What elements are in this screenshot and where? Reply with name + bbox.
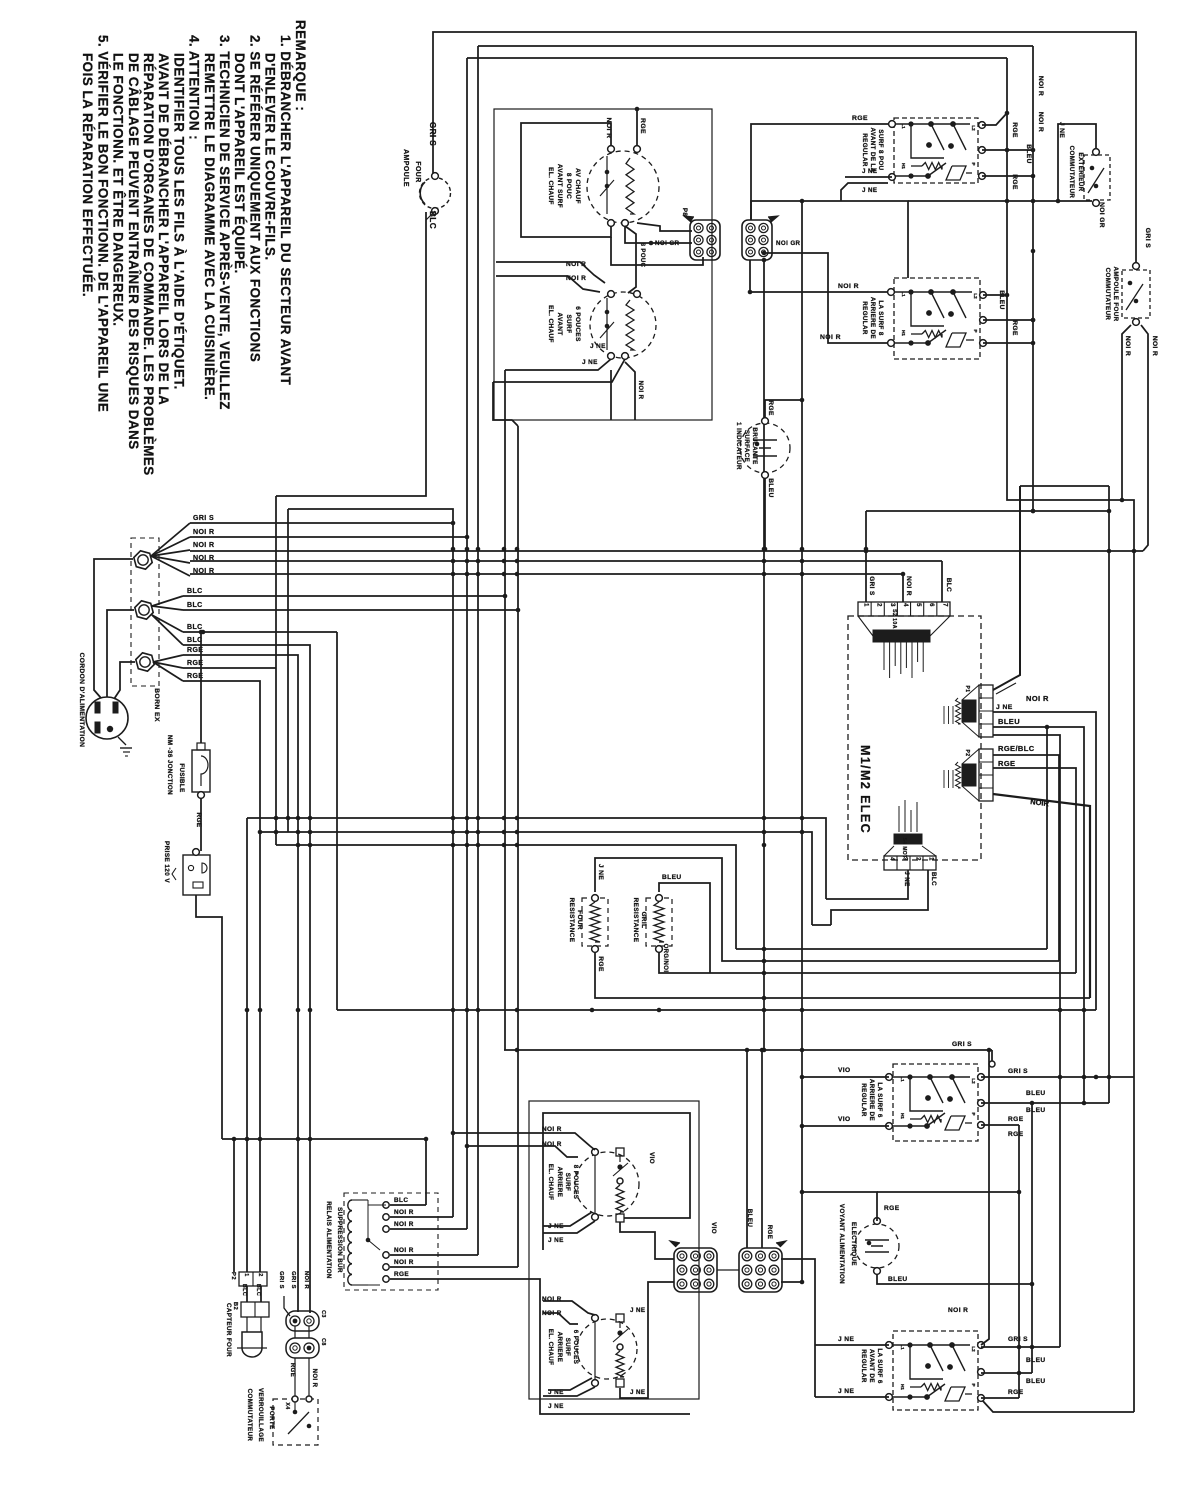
- svg-text:DONT L'APPAREIL EST ÉQUIPÉ.: DONT L'APPAREIL EST ÉQUIPÉ.: [232, 53, 247, 274]
- svg-text:VERROUILLAGE: VERROUILLAGE: [257, 1388, 264, 1442]
- fan wires connector2: [152, 596, 183, 606]
- wire: J2 right wires: [781, 1259, 815, 1397]
- svg-text:BLEU: BLEU: [1026, 1090, 1046, 1097]
- svg-text:GRI S: GRI S: [868, 576, 875, 596]
- svg-text:AVANT SURF: AVANT SURF: [556, 164, 563, 208]
- wire: bake bottom: [595, 952, 1090, 998]
- wire: sw3 left feeds: [802, 1076, 889, 1078]
- wire: J2 top drops: [746, 1050, 748, 1248]
- svg-text:SURFACE: SURFACE: [743, 430, 750, 462]
- svg-text:L2: L2: [973, 293, 978, 299]
- wire: fuse top to BLC bus: [200, 632, 202, 743]
- svg-text:GRI S: GRI S: [290, 1271, 296, 1289]
- svg-text:8 POUC: 8 POUC: [565, 173, 572, 199]
- svg-text:BORN EX: BORN EX: [153, 688, 160, 722]
- pilot light voyant alimentation: [855, 1224, 899, 1268]
- wire: C8 to door switch: [294, 1358, 296, 1399]
- svg-text:LA SURF 6: LA SURF 6: [876, 1082, 883, 1117]
- wire: relay t5: [390, 1266, 518, 1268]
- svg-text:AVANT DE: AVANT DE: [868, 1349, 875, 1383]
- svg-text:SURF: SURF: [564, 1338, 571, 1356]
- svg-text:2: 2: [915, 857, 921, 861]
- wire: bus y1010: [337, 1009, 1096, 1011]
- svg-text:2. SE RÉFÉRER UNIQUEMENT AUX F: 2. SE RÉFÉRER UNIQUEMENT AUX FONCTIONS: [247, 35, 262, 362]
- wire: RGE bus right v1019: [1018, 1125, 1020, 1398]
- svg-text:AVANT: AVANT: [556, 312, 563, 335]
- relais alimentation dashed box: [344, 1193, 438, 1290]
- svg-text:BRULANTE: BRULANTE: [751, 427, 758, 464]
- wire: v247 capteur: [246, 818, 248, 1272]
- svg-text:NOI GR: NOI GR: [1098, 202, 1105, 228]
- svg-text:REGULAR: REGULAR: [860, 1083, 867, 1117]
- svg-text:VIO: VIO: [710, 1222, 717, 1234]
- svg-text:BLC: BLC: [241, 1284, 247, 1296]
- infinite switch front 6po: [893, 1331, 978, 1410]
- svg-text:VIO: VIO: [648, 1152, 655, 1164]
- svg-text:RGE: RGE: [597, 956, 604, 972]
- svg-text:SUPPRESSION BUR: SUPPRESSION BUR: [336, 1207, 343, 1273]
- svg-text:C8: C8: [320, 1338, 326, 1346]
- wire: relay t3: [390, 1228, 467, 1230]
- surface element EL.CHAUF AVANT 8po (circle): [587, 151, 659, 223]
- svg-text:J NE: J NE: [996, 704, 1013, 711]
- element limiter 2: [606, 298, 608, 350]
- svg-text:NOI R: NOI R: [394, 1221, 414, 1228]
- wire: broil bottom: [659, 952, 710, 973]
- svg-text:8 POUC: 8 POUC: [639, 243, 645, 268]
- wire: sw4 BLEU right: [981, 1372, 1032, 1374]
- wire: elem4 feeds: [543, 1301, 595, 1315]
- svg-text:BLC: BLC: [945, 578, 952, 592]
- wire: elem3 feeds: [453, 1133, 595, 1150]
- wire: P2-1 RGE/BLC: [993, 755, 1059, 961]
- svg-text:NOI R: NOI R: [542, 1141, 562, 1148]
- fan wires connector3: [153, 655, 183, 662]
- wire: bus v1109: [1108, 486, 1110, 1103]
- rear element 6 resistor: [616, 1351, 624, 1377]
- oven lamp AMPOULE FOUR: [420, 178, 451, 209]
- infinite switch front 8po: [894, 118, 978, 183]
- wire: light sw split left: [1122, 325, 1131, 500]
- relay internal links: [368, 1204, 386, 1206]
- wire: to sw2 left B: [764, 253, 891, 343]
- svg-text:6: 6: [928, 603, 934, 607]
- board top fan + label bar: [858, 616, 873, 636]
- svg-text:J NE: J NE: [903, 871, 910, 886]
- wire: bus y845: [276, 845, 736, 949]
- wire: relay t2: [390, 1216, 453, 1218]
- wire: top GRIS bus L1: [433, 32, 1136, 262]
- svg-text:AMPOULE FOUR: AMPOULE FOUR: [1112, 267, 1119, 322]
- prise 120V outlet: [183, 855, 210, 895]
- wire: bottom strip drops: [826, 870, 908, 899]
- wire: comm ext top loop: [1058, 124, 1096, 201]
- wire: C2 right to sw2 top: [751, 201, 908, 278]
- svg-text:J NE: J NE: [630, 1307, 645, 1314]
- wire: P1-4 GRIS: [993, 735, 1060, 1347]
- svg-text:1: 1: [243, 1273, 249, 1276]
- svg-text:EL. CHAUF: EL. CHAUF: [547, 1164, 554, 1201]
- wire: bus v288: [287, 509, 289, 832]
- wire: cell drops from top: [865, 511, 867, 602]
- wire: v802 long: [801, 201, 803, 1282]
- fan wires connector1: [151, 523, 190, 556]
- wire: bus B v1033: [1032, 46, 1034, 511]
- wire: element1 to element2 link: [625, 226, 636, 293]
- wire: C3-C8 links: [294, 1326, 296, 1338]
- svg-text:EL. CHAUF: EL. CHAUF: [547, 1329, 554, 1366]
- svg-text:COMMUTATEUR: COMMUTATEUR: [1104, 268, 1111, 321]
- svg-text:NOI R: NOI R: [637, 381, 643, 400]
- svg-text:8 POUCES: 8 POUCES: [572, 1165, 579, 1200]
- wire: BLC 596 to v505: [183, 595, 505, 597]
- wire: bus v276: [275, 496, 277, 845]
- wire: sw3 GRIS right: [981, 1076, 1134, 1078]
- svg-text:NOI R: NOI R: [905, 576, 912, 596]
- svg-text:GRI S: GRI S: [428, 122, 437, 146]
- wire: top bus L2: [478, 45, 1033, 47]
- svg-text:GRI S: GRI S: [1008, 1068, 1028, 1075]
- svg-text:L2: L2: [971, 1078, 976, 1084]
- connector J2 9pin: [739, 1248, 782, 1292]
- svg-text:NOI R: NOI R: [394, 1247, 414, 1254]
- svg-text:RGE: RGE: [394, 1271, 409, 1278]
- svg-text:L1: L1: [900, 1076, 905, 1082]
- rear section outer box: [529, 1101, 699, 1399]
- connector P2 2pin: [239, 1272, 267, 1286]
- svg-text:EL. CHAUF: EL. CHAUF: [547, 167, 554, 205]
- svg-text:ARRIERE DE: ARRIERE DE: [869, 297, 876, 339]
- wire: P1-1 NOIR: [993, 486, 1020, 690]
- svg-text:GRI S: GRI S: [193, 515, 214, 522]
- wire: element2 bottom stubs: [505, 359, 611, 370]
- svg-text:J NE: J NE: [630, 1389, 645, 1396]
- svg-text:J NE: J NE: [838, 1336, 854, 1343]
- svg-text:RELAIS ALIMENTATION: RELAIS ALIMENTATION: [325, 1201, 332, 1279]
- wire: C2 bottom drop 750: [749, 260, 751, 292]
- svg-text:D'ENLEVER LE COUVRE-FILS.: D'ENLEVER LE COUVRE-FILS.: [263, 53, 278, 261]
- wire: RGE bus 681 to v260: [183, 681, 260, 1272]
- wire: element1 top to box edge: [636, 109, 638, 146]
- svg-text:RGE: RGE: [1008, 1116, 1024, 1123]
- svg-text:NOI R: NOI R: [193, 529, 214, 536]
- svg-text:BLC: BLC: [255, 1284, 261, 1296]
- svg-text:J NE: J NE: [548, 1403, 564, 1410]
- wire: link y925: [812, 924, 831, 926]
- svg-text:NOI R: NOI R: [1037, 112, 1044, 132]
- wire: NOIR bus y574: [190, 573, 903, 575]
- wire: sw4 RGE right: [981, 1397, 1019, 1399]
- svg-text:NOI R: NOI R: [394, 1259, 414, 1266]
- svg-text:AV CHAUF: AV CHAUF: [574, 168, 581, 204]
- svg-text:4: 4: [902, 603, 908, 607]
- svg-text:PRISE 120 V: PRISE 120 V: [163, 841, 170, 883]
- wire: BLC bus 632: [183, 631, 337, 633]
- hex connector 2: [135, 601, 153, 619]
- svg-text:BLC: BLC: [930, 872, 937, 886]
- svg-text:REGULAR: REGULAR: [861, 133, 868, 167]
- svg-text:NOI R: NOI R: [1124, 336, 1131, 356]
- svg-text:RGE: RGE: [289, 1363, 295, 1377]
- wire: NOIR bus y561: [190, 560, 942, 562]
- board top connector strip: [858, 602, 950, 616]
- svg-text:NOI R: NOI R: [542, 1296, 562, 1303]
- svg-text:4: 4: [889, 857, 895, 861]
- indicateur surface brulante: [740, 423, 790, 473]
- svg-text:REMETTRE LE DIAGRAMME AVEC LA: REMETTRE LE DIAGRAMME AVEC LA CUISINIÈRE…: [202, 53, 217, 400]
- svg-text:P8: P8: [681, 208, 688, 217]
- element resistor 2: [626, 300, 634, 350]
- wire: elem4 bottom: [620, 1282, 674, 1398]
- wire: element2 top feeds: [496, 262, 605, 283]
- svg-text:RÉPARATION D'ORGANES DE COMMAN: RÉPARATION D'ORGANES DE COMMANDE. LES PR…: [141, 53, 156, 476]
- svg-text:LE FONCTIONN. ET ÊTRE DANGEREU: LE FONCTIONN. ET ÊTRE DANGEREUX.: [111, 53, 126, 326]
- commutateur ampoule four: [1122, 270, 1150, 318]
- wire: outlet bottom: [196, 895, 222, 1139]
- svg-text:2: 2: [257, 1273, 263, 1276]
- svg-text:FOUR: FOUR: [414, 161, 421, 182]
- infinite switch rear 6po: [893, 1064, 978, 1141]
- wire: link y486: [1020, 485, 1109, 487]
- svg-text:H1: H1: [901, 163, 906, 169]
- svg-text:C3: C3: [320, 1310, 326, 1318]
- svg-text:NOI R: NOI R: [303, 1271, 309, 1290]
- svg-text:1. DÉBRANCHER L'APPAREIL DU SE: 1. DÉBRANCHER L'APPAREIL DU SECTEUR AVAN…: [278, 35, 293, 386]
- svg-text:RGE/BLC: RGE/BLC: [998, 744, 1035, 753]
- wire: P2-B2 stubs: [246, 1286, 248, 1302]
- svg-text:BLEU: BLEU: [888, 1276, 908, 1283]
- svg-text:5: 5: [915, 603, 921, 607]
- wire: RGE bus 655 to v298: [183, 655, 298, 1312]
- wire: fuse to outlet: [200, 798, 202, 851]
- wire: P2-4 NOIR diag: [993, 794, 1090, 998]
- hex connector 3: [136, 653, 154, 671]
- wire: J1-J2 link: [717, 1269, 739, 1271]
- svg-text:BLEU: BLEU: [998, 290, 1005, 310]
- wire: C2 bottom drop 764: [763, 260, 765, 1050]
- svg-text:BLC: BLC: [187, 602, 203, 609]
- svg-text:FUSIBLE: FUSIBLE: [178, 763, 185, 792]
- svg-text:VIO: VIO: [838, 1067, 851, 1074]
- wire: prise-capteur v234: [233, 1139, 235, 1272]
- commutateur verrouillage porte: [273, 1399, 318, 1445]
- wire: fan wire 537 to v467: [190, 536, 467, 538]
- rear element limiter contacts: [619, 1156, 621, 1162]
- svg-text:FOIS LA RÉPARATION EFFECTUÉE.: FOIS LA RÉPARATION EFFECTUÉE.: [80, 53, 95, 297]
- relay coil: [348, 1200, 352, 1285]
- wire: bus v337: [336, 632, 338, 1010]
- svg-text:ARRIERE DE: ARRIERE DE: [868, 1079, 875, 1121]
- svg-text:L1: L1: [900, 1344, 905, 1350]
- board bottom strip: [884, 856, 936, 870]
- wire: pilot bottom BLEU: [877, 1274, 1032, 1284]
- svg-text:NOI R: NOI R: [838, 283, 859, 290]
- notes text block (remarques): [80, 20, 308, 476]
- svg-text:BLEU: BLEU: [1025, 144, 1032, 164]
- svg-text:P2: P2: [964, 750, 970, 757]
- svg-text:ARRIERE: ARRIERE: [556, 1332, 563, 1363]
- svg-text:NOI R: NOI R: [542, 1126, 562, 1133]
- rear element resistor: [616, 1185, 624, 1212]
- wire: y949 link: [736, 948, 1047, 950]
- svg-text:RGE: RGE: [884, 1205, 900, 1212]
- svg-text:NOI R: NOI R: [820, 334, 841, 341]
- svg-text:2: 2: [876, 603, 882, 607]
- wire: v426 relay drop: [425, 1139, 427, 1205]
- connector C2 6-pin: [742, 220, 772, 260]
- svg-text:L2: L2: [971, 1346, 976, 1352]
- wire: P1-2 JNE: [993, 712, 1096, 1010]
- svg-text:GRI S: GRI S: [1008, 1336, 1028, 1343]
- wire: C2 to switch RGE: [751, 124, 894, 220]
- svg-text:COMMUTATEUR: COMMUTATEUR: [1068, 146, 1075, 199]
- wire: sw4 left feeds: [815, 1344, 889, 1346]
- svg-text:LA SURF 8: LA SURF 8: [877, 300, 884, 335]
- hex connector 1: [134, 551, 152, 569]
- svg-text:ORG/NOI: ORG/NOI: [662, 944, 668, 973]
- wire: sw4 GRIS right: [981, 1346, 1060, 1348]
- svg-text:ELECTRIQUE: ELECTRIQUE: [850, 1222, 857, 1266]
- svg-text:NOI GR: NOI GR: [655, 240, 680, 247]
- capteur four sensor: [242, 1332, 262, 1357]
- wire: bus v478: [477, 46, 479, 1255]
- wire: bus v505: [504, 370, 506, 1050]
- commutateur exterieur switch: [1084, 155, 1110, 200]
- svg-text:J NE: J NE: [862, 168, 877, 175]
- wire: sw3 RGE right: [981, 1124, 1019, 1126]
- fuse M-36 jonction: [192, 750, 210, 792]
- svg-text:S4 MOT: S4 MOT: [901, 837, 907, 858]
- wire: sw3 BLEU right: [981, 1102, 1109, 1104]
- surface element EL.CHAUF AVANT 6po (circle): [590, 292, 656, 358]
- wire: bus v452: [288, 509, 453, 1217]
- svg-text:M1/M2 ELEC: M1/M2 ELEC: [858, 745, 872, 834]
- svg-text:GRIL: GRIL: [640, 912, 647, 929]
- wire: bus y818: [247, 818, 826, 899]
- wire: pilot top RGE: [802, 1192, 877, 1221]
- svg-text:SURF: SURF: [564, 1173, 571, 1191]
- svg-text:LA SURF 6: LA SURF 6: [876, 1348, 883, 1383]
- svg-text:NOI R: NOI R: [1151, 336, 1158, 356]
- svg-text:J NE: J NE: [597, 864, 604, 880]
- svg-text:RGE: RGE: [1008, 1389, 1024, 1396]
- svg-text:FOUR: FOUR: [576, 910, 583, 930]
- wire: elem3 bottom: [620, 1222, 674, 1259]
- rear element 6po circle: [577, 1319, 637, 1379]
- svg-text:H1: H1: [901, 330, 906, 336]
- svg-text:SURF 8 POU: SURF 8 POU: [877, 129, 884, 170]
- svg-text:RGE: RGE: [1011, 320, 1018, 336]
- wire: bus y832: [260, 832, 812, 925]
- connector C8 2pin: [286, 1338, 319, 1358]
- svg-text:5. VÉRIFIER LE BON FONCTIONN.: 5. VÉRIFIER LE BON FONCTIONN. DE L'APPAR…: [95, 35, 110, 412]
- wire: bus y1050 loop right: [504, 1049, 992, 1051]
- wire: indicator top: [765, 400, 802, 418]
- wire: box jog 493: [493, 382, 518, 426]
- svg-text:RGE: RGE: [1011, 174, 1018, 190]
- wire: lamp BLC down: [276, 212, 426, 496]
- connector J1 9pin: [674, 1248, 717, 1292]
- svg-text:NOIR: NOIR: [1030, 797, 1050, 808]
- svg-text:NOI R: NOI R: [394, 1209, 414, 1216]
- svg-text:RGE: RGE: [766, 1225, 773, 1240]
- infinite switch rear 8po: [894, 278, 980, 359]
- svg-text:J NE: J NE: [582, 359, 598, 366]
- wire: broil top: [659, 883, 710, 973]
- wire: top bus L3: [467, 57, 1007, 59]
- svg-text:BLEU: BLEU: [998, 717, 1020, 726]
- svg-text:AVANT DE LA: AVANT DE LA: [869, 127, 876, 172]
- svg-text:RGE: RGE: [639, 118, 646, 134]
- ground symbol: [118, 737, 126, 745]
- svg-text:BLC: BLC: [394, 1197, 408, 1204]
- wire: bus y1139: [222, 1138, 426, 1140]
- svg-text:VIO: VIO: [838, 1116, 851, 1123]
- svg-text:RESISTANCE: RESISTANCE: [568, 898, 575, 943]
- svg-text:REMARQUE :: REMARQUE :: [293, 20, 308, 111]
- svg-text:J NE: J NE: [590, 343, 606, 350]
- svg-text:1: 1: [863, 603, 869, 607]
- svg-text:1: 1: [928, 857, 934, 861]
- svg-text:REGULAR: REGULAR: [860, 1349, 867, 1383]
- svg-text:3: 3: [889, 603, 895, 607]
- svg-text:AMPOULE: AMPOULE: [402, 149, 409, 187]
- svg-text:BLEU: BLEU: [1026, 1378, 1046, 1385]
- rear element 8po circle: [575, 1152, 639, 1216]
- svg-text:NOI R: NOI R: [193, 542, 214, 549]
- resistor bake RESISTANCE FOUR: [582, 898, 608, 946]
- power cord plug: [86, 697, 128, 739]
- wire: relay t1: [390, 1204, 426, 1206]
- wire: bus v518: [517, 426, 519, 1267]
- wire: sw1 right to bus: [982, 113, 1007, 125]
- rear inner wire loop: [543, 1113, 690, 1250]
- svg-text:RGE: RGE: [1011, 122, 1018, 138]
- svg-text:NOI GR: NOI GR: [776, 240, 801, 247]
- svg-text:RESISTANCE: RESISTANCE: [632, 898, 639, 943]
- wire: bottom return y1412: [982, 1400, 1134, 1412]
- svg-text:SURF: SURF: [565, 315, 572, 334]
- svg-text:AVANT DE DÉBRANCHER L'APPAREIL: AVANT DE DÉBRANCHER L'APPAREIL LORS DE L…: [156, 53, 171, 405]
- svg-text:L2: L2: [971, 125, 976, 131]
- svg-text:P2: P2: [230, 1272, 236, 1280]
- svg-text:7: 7: [941, 603, 947, 607]
- element limiter: [606, 156, 608, 214]
- wire: GRIS bus y549: [190, 550, 1143, 552]
- svg-text:3. TECHNICIEN DE SERVICE APRÈS: 3. TECHNICIEN DE SERVICE APRÈS-VENTE, VE…: [217, 35, 232, 410]
- svg-text:L1: L1: [901, 291, 906, 297]
- svg-text:NOI R: NOI R: [948, 1307, 968, 1314]
- svg-text:GRI S: GRI S: [278, 1271, 284, 1289]
- svg-text:BLEU: BLEU: [1026, 1107, 1046, 1114]
- svg-text:EXTERIEUR: EXTERIEUR: [1077, 152, 1084, 191]
- svg-text:J NE: J NE: [838, 1388, 854, 1395]
- wire: relay t6: [390, 1279, 690, 1414]
- svg-text:J NE: J NE: [862, 187, 877, 194]
- svg-text:H1: H1: [900, 1384, 905, 1390]
- wire: relay t4: [390, 1254, 478, 1256]
- wire: sw2 right wires: [983, 294, 1007, 296]
- wire: element1 feed loop: [521, 123, 611, 237]
- svg-text:GRI S: GRI S: [1144, 228, 1151, 249]
- wire: plug to conn1: [94, 559, 133, 698]
- wire: indicator bottom: [764, 478, 766, 549]
- board connector P1: [979, 685, 993, 737]
- wire: sw4 top NOIR: [981, 1050, 989, 1345]
- control board M1/M2 ELEC (dashed): [848, 616, 981, 860]
- svg-text:BLEU: BLEU: [746, 1209, 753, 1228]
- svg-text:J NE: J NE: [548, 1237, 564, 1244]
